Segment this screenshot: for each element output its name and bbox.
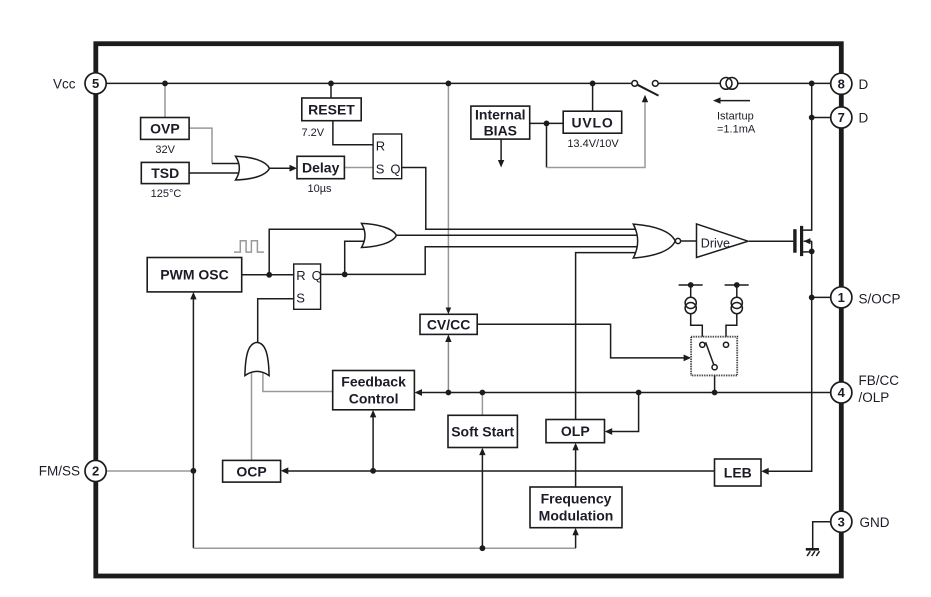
box OVP <box>141 118 190 140</box>
svg-text:S: S <box>296 290 305 305</box>
pin 3 GND <box>831 511 852 532</box>
node Vcc-OVP <box>162 81 168 87</box>
node BIAS-UVLO <box>544 121 550 127</box>
Istartup arrow <box>716 100 750 102</box>
wire Internal BIAS down arrow <box>500 139 502 164</box>
node pin8 <box>809 81 815 87</box>
node OCP-line <box>370 468 376 474</box>
svg-text:Drive: Drive <box>701 236 730 250</box>
box OCP <box>223 460 281 482</box>
wire CV/CC output to switch box <box>477 324 687 358</box>
node Vcc-UVLO <box>590 81 596 87</box>
svg-text:TSD: TSD <box>151 165 179 181</box>
wire RESET to FF1 R input <box>333 121 373 145</box>
box TSD <box>141 162 189 183</box>
wire FF1 Q to NOR input 1 <box>402 168 638 230</box>
or-gate OR2 (PWM/FF2) <box>362 223 397 247</box>
svg-text:Vcc: Vcc <box>53 76 76 91</box>
node pin2 <box>191 468 197 474</box>
wire S/OCP junction to pin 1 <box>812 296 831 298</box>
node CS-A <box>688 282 694 288</box>
svg-text:Frequency: Frequency <box>541 491 612 507</box>
wire FB junction to OLP right arrow <box>608 393 638 432</box>
nor-gate U2 (4-input) <box>633 224 675 258</box>
pin 5 Vcc <box>85 73 106 94</box>
svg-text:LEB: LEB <box>724 465 752 481</box>
wire OLP up to NOR input 4 <box>576 253 638 420</box>
startup switch blade <box>638 85 659 96</box>
wire OVP output to OR gate <box>189 128 212 163</box>
node MOSFET source <box>809 249 815 255</box>
svg-text:BIAS: BIAS <box>484 122 517 138</box>
svg-text:/OLP: /OLP <box>859 390 890 405</box>
wire Delay to FF1 S input <box>344 167 373 169</box>
switch lever <box>706 342 714 365</box>
svg-text:1: 1 <box>838 290 845 305</box>
svg-text:Q: Q <box>390 162 400 177</box>
switch box (dotted) <box>691 337 737 376</box>
svg-text:D: D <box>859 77 869 92</box>
svg-text:10µs: 10µs <box>307 183 332 195</box>
box Soft Start <box>448 415 517 447</box>
svg-text:D: D <box>859 111 869 126</box>
wire FF2 Q to junction and OR2 bottom input <box>321 273 345 275</box>
wire bottom rail up to Soft Start bottom <box>481 451 483 548</box>
wire MOSFET body arrow branch <box>804 240 812 242</box>
ground symbol <box>806 548 819 551</box>
flip-flop FF2 <box>294 264 321 309</box>
wire UVLO junction to Internal BIAS <box>530 122 564 124</box>
wire junction up to PWM OSC bottom <box>192 295 194 471</box>
buffer Drive <box>697 224 749 258</box>
node Vcc-CVCC <box>446 81 452 87</box>
current source Istartup symbol <box>720 78 732 90</box>
wire OCP top to OR1 left input <box>251 371 253 460</box>
svg-text:PWM OSC: PWM OSC <box>160 267 228 283</box>
wire PWM junction up to OR2 top input <box>269 229 366 274</box>
wire OVP stub from Vcc rail <box>164 83 166 117</box>
wire UVLO feedback to startup switch <box>546 123 548 167</box>
or-gate OR1 (vertical, OCP/FB) <box>245 342 269 375</box>
wire NOR output to Drive <box>681 240 697 242</box>
wire FB junction down to Soft Start top <box>481 393 483 416</box>
svg-text:Istartup: Istartup <box>717 111 754 123</box>
wire LEB output to OCP <box>285 470 715 472</box>
svg-text:8: 8 <box>838 77 845 92</box>
svg-text:Soft Start: Soft Start <box>451 423 514 439</box>
svg-text:GND: GND <box>860 515 890 530</box>
pin 4 FB/CC/OLP <box>831 382 852 403</box>
box Internal BIAS <box>471 106 530 139</box>
wire Vcc top rail <box>106 82 632 84</box>
wire OR output arrow to Delay <box>269 167 294 169</box>
pin 1 S/OCP <box>831 287 852 308</box>
wire switch box bottom contact to FB rail <box>714 370 716 393</box>
svg-text:Control: Control <box>349 391 399 407</box>
wire current source A to switch box <box>691 314 703 343</box>
box LEB <box>715 459 762 486</box>
wire FB/CC rail from pin 4 to Feedback Control <box>418 392 831 394</box>
svg-text:FB/CC: FB/CC <box>859 373 900 388</box>
wire bottom rail up to Frequency Modulation bottom <box>575 531 577 548</box>
pin 2 FM/SS <box>85 460 106 481</box>
wire Frequency Modulation to OLP bottom <box>575 446 577 487</box>
box Delay <box>297 156 344 178</box>
wire FB junction up into CV/CC bottom <box>447 338 449 393</box>
wire MOSFET drain up to pin7/8 <box>803 118 812 231</box>
box OLP <box>546 420 605 443</box>
svg-text:Delay: Delay <box>302 160 340 176</box>
svg-text:7: 7 <box>838 110 845 125</box>
switch contact right <box>723 342 728 347</box>
node CS-B <box>734 282 740 288</box>
svg-text:7.2V: 7.2V <box>302 127 325 139</box>
wire junction up to Feedback Control bottom <box>372 413 374 471</box>
svg-text:CV/CC: CV/CC <box>427 316 471 332</box>
svg-text:Internal: Internal <box>475 107 526 123</box>
node FB-CVCC <box>446 390 452 396</box>
box Frequency Modulation <box>530 487 622 528</box>
wire pin 3 to ground <box>813 522 831 549</box>
pin 7 D <box>831 107 852 128</box>
wire OR1 output to FF2 S input <box>258 299 294 343</box>
svg-text:Q: Q <box>312 268 322 283</box>
wire MOSFET to S/OCP <box>811 241 813 297</box>
svg-text:=1.1mA: =1.1mA <box>717 124 756 136</box>
wire junction down to bottom rail <box>192 471 194 548</box>
box PWM OSC <box>147 258 242 292</box>
node bottom-rail <box>480 545 486 551</box>
wire Feedback Control left to OR1 right input <box>263 371 333 392</box>
box RESET <box>302 98 361 121</box>
svg-text:OVP: OVP <box>150 121 180 137</box>
switch contact left <box>700 342 705 347</box>
node FF2-Q <box>342 272 348 278</box>
svg-text:UVLO: UVLO <box>571 114 613 130</box>
square wave symbol <box>234 241 264 252</box>
svg-text:OCP: OCP <box>236 463 266 479</box>
or-gate OR3 (OVP/TSD) <box>236 156 270 180</box>
svg-text:4: 4 <box>838 385 846 400</box>
current source B symbol <box>731 297 742 308</box>
box Feedback Control <box>333 371 415 410</box>
svg-text:5: 5 <box>92 76 99 91</box>
wire OR2 output to NOR input 2 <box>396 234 638 236</box>
svg-text:2: 2 <box>92 464 99 479</box>
wire TSD output to OR gate <box>189 172 240 174</box>
node FB-OLP <box>636 390 642 396</box>
svg-text:R: R <box>296 268 305 283</box>
svg-text:Modulation: Modulation <box>539 508 614 524</box>
wire S/OCP down to LEB <box>765 297 812 471</box>
chip outer border <box>96 44 842 576</box>
wire current source B to switch box <box>726 314 737 343</box>
wire Drive output to MOSFET gate <box>749 240 793 242</box>
node FB-switch <box>712 390 718 396</box>
node FB-SoftStart <box>480 390 486 396</box>
svg-text:3: 3 <box>838 514 845 529</box>
box UVLO <box>563 111 622 133</box>
svg-text:FM/SS: FM/SS <box>39 464 80 479</box>
wire RESET stub from Vcc rail <box>330 83 332 98</box>
wire UVLO stub from Vcc rail <box>592 83 594 111</box>
node Vcc-RESET <box>328 81 334 87</box>
svg-text:32V: 32V <box>155 144 175 156</box>
wire pin2 to junction <box>107 470 191 472</box>
current source A symbol <box>685 297 696 308</box>
wire MOSFET source stub <box>803 251 812 253</box>
box CV/CC <box>420 314 477 334</box>
wire FF2 Q junction to NOR input 3 <box>345 247 638 275</box>
svg-text:Feedback: Feedback <box>341 374 406 390</box>
svg-text:R: R <box>376 139 385 154</box>
transistor Q1 MOSFET <box>793 229 796 253</box>
wire PWM OSC output to FF2 R <box>242 274 294 276</box>
svg-text:S/OCP: S/OCP <box>859 291 901 306</box>
current source A top bar <box>679 284 703 286</box>
svg-text:RESET: RESET <box>308 101 355 117</box>
node S/OCP <box>809 295 815 301</box>
startup switch contacts <box>632 81 638 87</box>
switch contact bottom <box>712 365 717 370</box>
svg-text:13.4V/10V: 13.4V/10V <box>567 138 619 150</box>
wire to pin 7 <box>812 117 831 119</box>
flip-flop FF1 <box>373 134 402 179</box>
pin 8 D <box>831 73 852 94</box>
current source B top bar <box>725 284 749 286</box>
wire pin8 junction vertical <box>811 83 813 117</box>
svg-text:125°C: 125°C <box>151 188 182 200</box>
node PWM-FF2 <box>266 272 272 278</box>
wire Vcc rail to CV/CC vertical <box>447 83 449 311</box>
svg-text:S: S <box>376 162 385 177</box>
svg-text:OLP: OLP <box>561 423 590 439</box>
node pin7 <box>809 115 815 121</box>
